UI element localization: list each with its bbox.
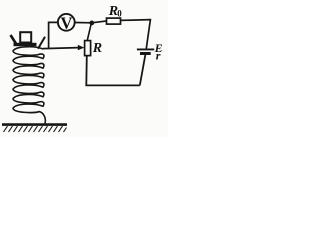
spring [13,47,45,124]
wire up to voltmeter [49,22,58,48]
wire voltmeter to junction [75,22,92,24]
battery E,r [137,49,154,53]
wire tray to wiper [43,48,79,49]
wiper arrow at R [78,45,85,50]
svg-text:0: 0 [117,9,122,19]
ground [2,125,67,132]
wire below R to bottom [86,56,140,86]
wire R0 to top-right corner and down to battery [121,20,151,49]
svg-text:R: R [92,41,102,56]
block m on tray [20,32,31,42]
wire junction to R0 [92,21,107,23]
resistor R [85,41,91,56]
voltmeter V [58,13,75,32]
wire junction down to R [87,23,91,41]
resistor R0 [107,18,121,24]
wire battery to bottom-right corner [140,55,146,85]
tray (platform on spring) [11,35,46,49]
node junction [89,21,94,26]
svg-text:V: V [61,13,73,32]
svg-text:r: r [156,49,161,63]
